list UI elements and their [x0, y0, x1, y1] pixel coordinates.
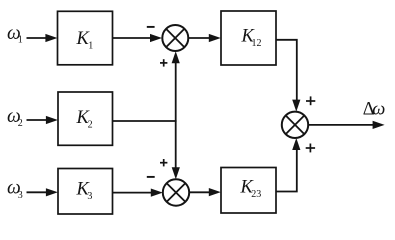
- svg-text:1: 1: [18, 35, 23, 46]
- label omega3: [7, 178, 23, 202]
- wire omega1 to K1 with arrow: [27, 34, 58, 42]
- plus sign right of K12 down-arrow at J3: [306, 96, 315, 105]
- arrow up into J1 bottom: [172, 51, 180, 63]
- block K12: [221, 11, 276, 65]
- plus sign at J1: [160, 59, 167, 66]
- wire J2 to K23 with arrow: [189, 188, 221, 196]
- block K23: [221, 168, 276, 214]
- wire omega2 to K2 with arrow: [27, 116, 58, 124]
- svg-text:1: 1: [88, 41, 93, 52]
- arrow down into J2 top: [172, 167, 180, 179]
- wire K1 to J1 with arrow: [113, 34, 163, 42]
- svg-text:3: 3: [18, 190, 23, 201]
- block K1: [58, 11, 113, 65]
- block K3: [58, 169, 113, 215]
- plus sign right of K23 up-arrow at J3: [306, 144, 315, 153]
- output wire J3 to delta-omega with arrow: [308, 121, 384, 129]
- svg-text:23: 23: [251, 189, 261, 200]
- wire K12 to J3 (right then down) with arrow: [276, 40, 300, 112]
- label omega1: [7, 23, 23, 46]
- summing junction J2: [163, 179, 189, 205]
- svg-text:3: 3: [87, 191, 92, 202]
- block K2: [58, 92, 113, 145]
- label delta-omega output: [363, 100, 386, 120]
- svg-text:2: 2: [18, 118, 23, 129]
- label omega2: [7, 106, 23, 129]
- svg-text:ω: ω: [372, 100, 385, 120]
- summing junction J1: [162, 25, 188, 51]
- wire J1 to K12 with arrow: [188, 34, 221, 42]
- svg-text:2: 2: [88, 119, 93, 130]
- summing junction J3: [282, 112, 308, 138]
- wire omega3 to K3 with arrow: [27, 188, 58, 196]
- svg-text:12: 12: [252, 38, 262, 49]
- minus sign at J2: [147, 176, 155, 178]
- wire K23 to J3 (right then up) with arrow: [276, 138, 300, 192]
- plus sign above J2: [160, 159, 167, 166]
- wire K3 to J2 with arrow: [113, 189, 163, 197]
- wire K2 output to trunk (T junction): [113, 120, 177, 122]
- vertical trunk wire from J1 down to J2 through K2 tap: [175, 60, 177, 171]
- minus sign at J1: [147, 26, 155, 28]
